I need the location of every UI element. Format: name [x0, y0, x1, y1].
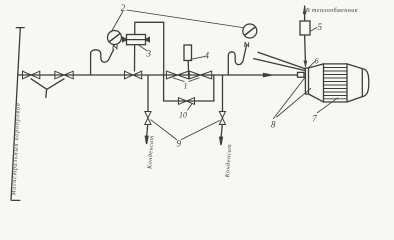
svg-text:10: 10	[179, 111, 187, 120]
svg-text:6: 6	[315, 57, 319, 66]
svg-text:4: 4	[205, 51, 210, 61]
svg-text:7: 7	[312, 114, 317, 124]
svg-text:2: 2	[121, 3, 126, 13]
svg-text:5: 5	[318, 22, 323, 32]
svg-text:9: 9	[177, 139, 182, 149]
svg-text:8: 8	[271, 120, 276, 130]
svg-text:1: 1	[184, 82, 188, 91]
svg-text:В теплообменник: В теплообменник	[306, 7, 358, 14]
svg-text:3: 3	[146, 49, 152, 59]
